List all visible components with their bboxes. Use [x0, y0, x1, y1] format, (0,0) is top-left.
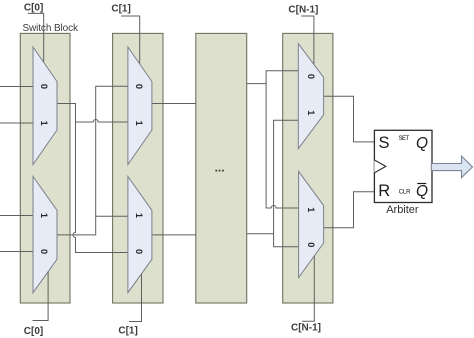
svg-text:Arbiter: Arbiter — [386, 204, 419, 216]
svg-text:S: S — [378, 134, 389, 152]
svg-text:1: 1 — [39, 213, 49, 218]
svg-text:0: 0 — [306, 242, 316, 247]
svg-text:R: R — [378, 182, 390, 200]
svg-text:Q: Q — [416, 135, 428, 152]
svg-text:1: 1 — [306, 207, 316, 212]
svg-text:Q: Q — [416, 183, 428, 200]
svg-text:C[0]: C[0] — [24, 326, 43, 337]
svg-text:C[0]: C[0] — [24, 3, 43, 14]
svg-text:0: 0 — [39, 84, 49, 89]
svg-text:1: 1 — [306, 110, 316, 115]
svg-text:0: 0 — [134, 84, 144, 89]
svg-text:C[1]: C[1] — [111, 4, 130, 15]
svg-text:1: 1 — [39, 121, 49, 126]
svg-text:1: 1 — [134, 213, 144, 218]
svg-text:0: 0 — [134, 249, 144, 254]
svg-text:C[N-1]: C[N-1] — [288, 5, 318, 16]
svg-text:Switch Block: Switch Block — [22, 23, 79, 34]
svg-text:C[N-1]: C[N-1] — [291, 323, 321, 334]
svg-text:SET: SET — [399, 136, 410, 142]
svg-text:...: ... — [215, 161, 225, 175]
svg-text:0: 0 — [306, 74, 316, 79]
svg-text:CLR: CLR — [399, 190, 411, 196]
svg-text:1: 1 — [134, 121, 144, 126]
svg-text:0: 0 — [39, 249, 49, 254]
svg-text:C[1]: C[1] — [118, 325, 137, 336]
